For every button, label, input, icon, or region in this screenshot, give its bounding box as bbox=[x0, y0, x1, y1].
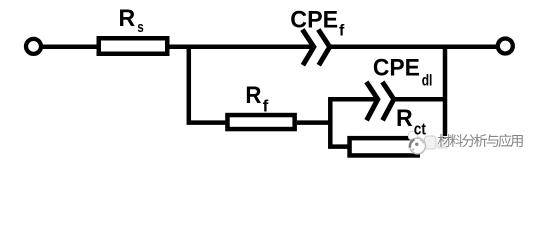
svg-text:CPE: CPE bbox=[373, 55, 420, 82]
svg-text:f: f bbox=[339, 22, 345, 39]
terminal left bbox=[26, 39, 41, 54]
svg-text:dl: dl bbox=[422, 73, 433, 90]
wire left terminal to Rs bbox=[43, 45, 99, 50]
svg-text:R: R bbox=[396, 105, 413, 132]
wire CPEdl to node D bbox=[395, 97, 448, 102]
watermark logo bubble bbox=[425, 136, 437, 149]
wire Rf to node C bbox=[297, 120, 332, 125]
watermark text 材料分析与应用 highlight bbox=[437, 133, 522, 146]
wire CPEf to right terminal bbox=[331, 45, 496, 50]
wire Rct to node D bbox=[418, 144, 448, 149]
wire Rs to CPEf bbox=[170, 45, 312, 50]
wire node B vertical bbox=[443, 47, 448, 147]
svg-text:s: s bbox=[137, 19, 144, 36]
watermark text 材料分析与应用 bbox=[438, 134, 523, 147]
svg-text:R: R bbox=[245, 82, 261, 109]
wire node C vertical with branches bbox=[330, 99, 375, 146]
svg-text:ct: ct bbox=[414, 120, 426, 139]
svg-text:R: R bbox=[119, 5, 136, 32]
terminal right bbox=[498, 39, 513, 54]
CPE CPEf chevron 1 bbox=[302, 30, 313, 66]
wire node A down and to Rf bbox=[189, 45, 226, 123]
resistor Rct bbox=[350, 138, 418, 155]
CPE CPEdl chevron 1 bbox=[366, 82, 377, 120]
CPE CPEdl chevron 2 bbox=[382, 82, 393, 120]
watermark logo circle bbox=[410, 138, 426, 154]
svg-text:CPE: CPE bbox=[290, 6, 338, 33]
resistor Rf bbox=[227, 115, 294, 129]
svg-text:f: f bbox=[263, 97, 269, 116]
watermark backing bbox=[411, 134, 526, 154]
resistor Rs bbox=[99, 38, 168, 54]
CPE CPEf chevron 2 bbox=[318, 30, 329, 66]
